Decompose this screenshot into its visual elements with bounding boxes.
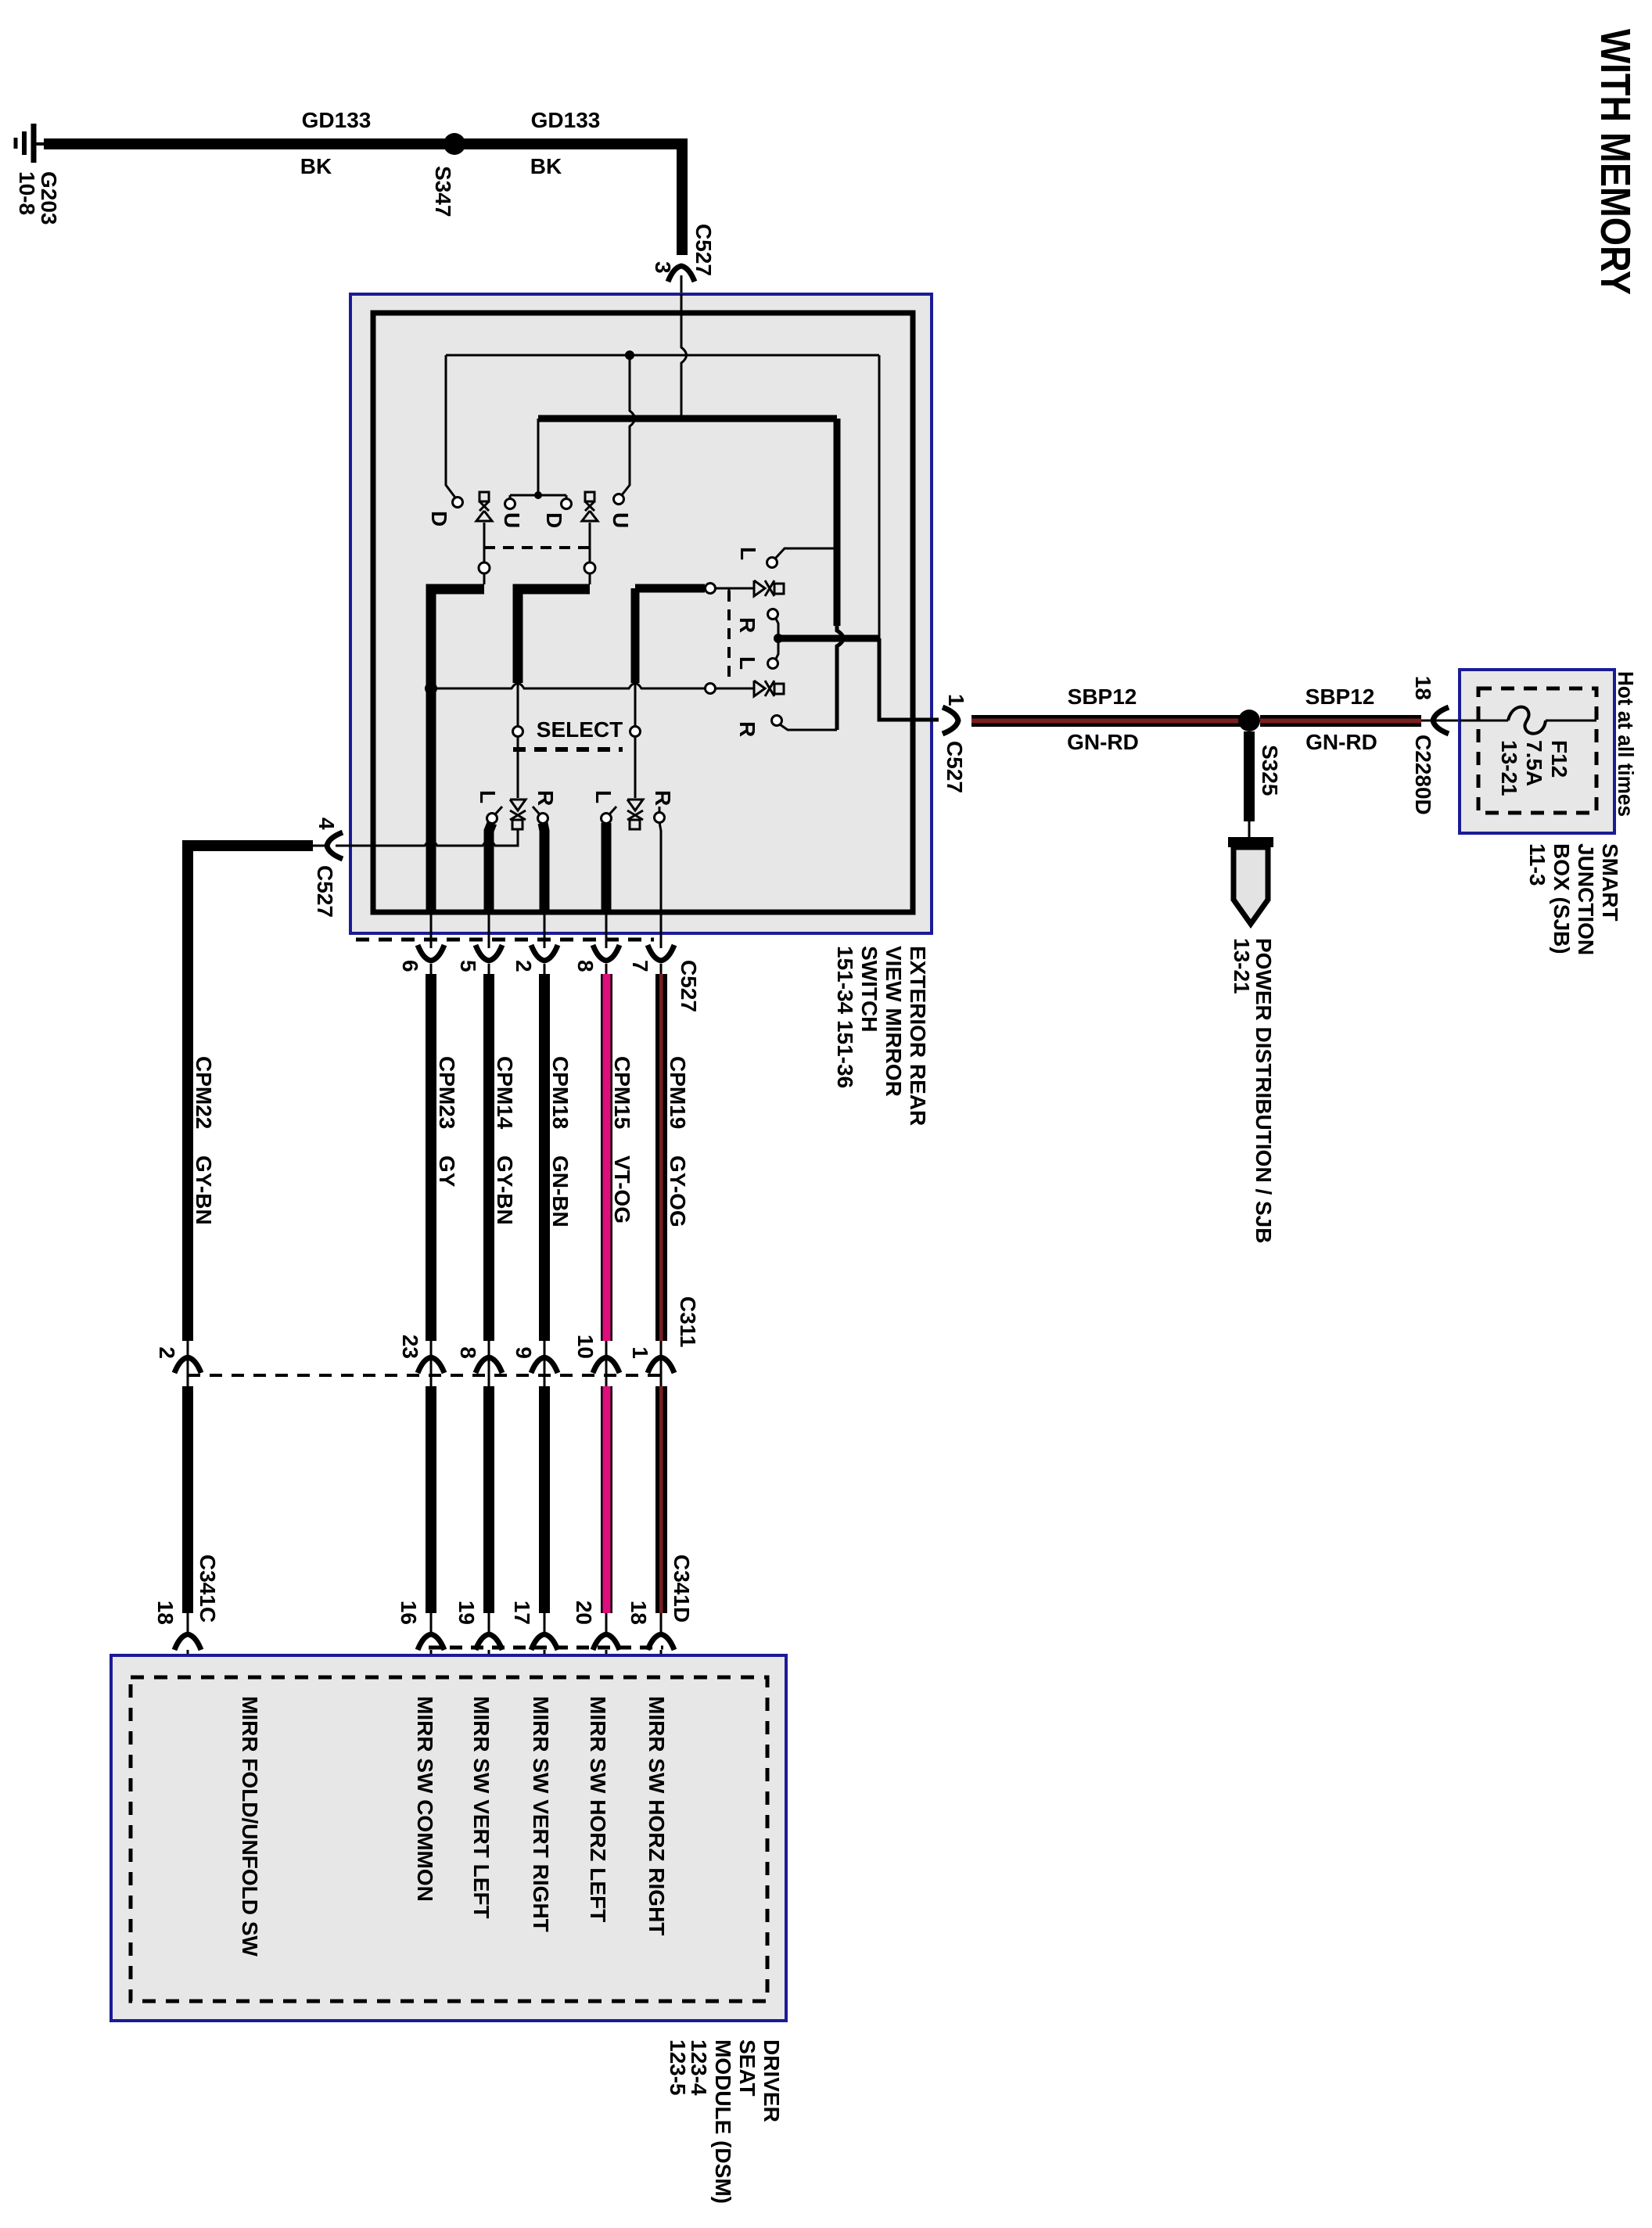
exterior rear view mirror switch box	[350, 294, 932, 933]
svg-text:L: L	[736, 547, 760, 560]
svg-text:C341D: C341D	[670, 1554, 694, 1622]
svg-text:F12: F12	[1547, 740, 1571, 778]
svg-text:GY-OG: GY-OG	[666, 1155, 690, 1227]
wire to switch B common (hops pole wires)	[431, 684, 705, 689]
svg-text:CPM23: CPM23	[435, 1056, 459, 1129]
svg-text:MIRR SW COMMON: MIRR SW COMMON	[413, 1696, 437, 1902]
contact U mirror-right-up	[614, 494, 624, 505]
svg-text:U: U	[609, 512, 633, 528]
wire pin3 inside switch (hops over internal line)	[681, 294, 687, 419]
splice S325	[1238, 710, 1260, 731]
tie node R/L2	[774, 634, 783, 643]
svg-text:GN-RD: GN-RD	[1305, 730, 1377, 754]
wire tie node to V2	[778, 635, 879, 642]
svg-text:BOX (SJB): BOX (SJB)	[1550, 843, 1574, 954]
wire CPM23	[426, 974, 436, 1341]
svg-text:6: 6	[398, 960, 422, 972]
wire SBP12 GN-RD right segment	[1260, 715, 1421, 727]
svg-text:18: 18	[627, 1601, 651, 1625]
bus left drop to contact link	[537, 419, 540, 495]
svg-text:11-3: 11-3	[1525, 843, 1550, 886]
svg-text:C2280D: C2280D	[1411, 735, 1435, 815]
DSM inner dashed outline	[131, 1677, 767, 2001]
svg-text:VIEW MIRROR: VIEW MIRROR	[882, 946, 906, 1097]
connector C527 pin 1 exit	[943, 707, 958, 734]
wire CPM15 violet-orange	[601, 974, 612, 1341]
svg-text:L: L	[735, 656, 760, 670]
internal top wire	[446, 354, 879, 357]
connector C2280D pin 18	[1433, 707, 1449, 734]
svg-text:20: 20	[572, 1601, 596, 1625]
svg-text:D: D	[427, 511, 451, 526]
svg-text:R: R	[735, 617, 760, 633]
svg-text:WITH MEMORY: WITH MEMORY	[1592, 29, 1639, 295]
bus wire from pin3	[538, 415, 837, 422]
wire CPM22 lower segment	[182, 1386, 193, 1613]
select pole 1 contact	[513, 727, 523, 737]
select pole 2 contact	[630, 727, 641, 737]
contact R horizontal-right	[768, 609, 778, 620]
wire L2 up to tie node	[776, 638, 778, 659]
svg-text:L: L	[591, 790, 616, 803]
ground G203	[16, 124, 45, 163]
dashed line connector C527 bottom	[356, 938, 654, 942]
svg-text:16: 16	[397, 1601, 421, 1625]
wire CPM19 grey-orange	[655, 974, 667, 1341]
wire select R to pin2 column	[543, 823, 544, 910]
svg-text:GN-RD: GN-RD	[1067, 730, 1139, 754]
svg-text:SBP12: SBP12	[1305, 685, 1375, 709]
svg-text:DRIVER: DRIVER	[760, 2039, 784, 2122]
svg-text:18: 18	[1411, 676, 1435, 700]
svg-text:VT-OG: VT-OG	[610, 1155, 634, 1224]
wire V2 top line down	[878, 355, 881, 638]
svg-text:19: 19	[454, 1601, 479, 1625]
wire select L to pin5 column	[489, 823, 492, 910]
wire select L2 to pin8 column	[602, 823, 612, 910]
select contact R horz-right	[655, 813, 665, 823]
svg-text:Hot at all times: Hot at all times	[1614, 671, 1638, 817]
arm L to V1	[775, 548, 836, 559]
svg-text:R: R	[735, 721, 760, 737]
svg-text:23: 23	[398, 1335, 422, 1359]
svg-text:C311: C311	[676, 1296, 700, 1347]
dashed line connector C311	[188, 1374, 662, 1377]
select pole 2 actuator	[634, 736, 637, 798]
switch A pole contact	[706, 584, 716, 594]
wire CPM18 lower	[539, 1386, 550, 1613]
wire V1 from bus (hops tie wire)	[834, 419, 841, 626]
select contact R vert-right	[538, 814, 548, 824]
actuator switch B horizontal	[716, 681, 784, 696]
svg-text:R: R	[533, 790, 558, 806]
svg-text:3: 3	[651, 261, 675, 274]
wire CPM15 lower	[601, 1386, 612, 1613]
driver seat module DSM box	[111, 1655, 786, 2021]
select pole 2 wire from switch A common	[631, 588, 640, 683]
svg-text:R: R	[651, 790, 675, 806]
switch inner border	[373, 313, 913, 912]
wire GD133 BK ground feed	[44, 144, 682, 255]
svg-text:123-5: 123-5	[666, 2039, 690, 2096]
fuse F12 element	[1508, 707, 1546, 734]
connector C527 pin 4 exit left	[327, 832, 343, 859]
contact link wire U1-D2	[510, 494, 566, 497]
wire switch1 common to column 6	[483, 573, 486, 584]
svg-text:C527: C527	[313, 865, 337, 918]
svg-text:SBP12: SBP12	[1068, 685, 1137, 709]
svg-text:10: 10	[573, 1335, 598, 1359]
wire CPM18	[539, 974, 550, 1341]
wire to power distribution	[1248, 821, 1251, 839]
svg-text:9: 9	[512, 1346, 536, 1359]
svg-text:13-21: 13-21	[1230, 938, 1254, 994]
column pin5 CPM14 GY-BN	[454, 910, 517, 1677]
svg-text:BK: BK	[300, 154, 332, 178]
svg-text:C527: C527	[677, 960, 701, 1012]
select pole 1 wire and actuator	[517, 736, 519, 798]
svg-text:EXTERIOR REAR: EXTERIOR REAR	[906, 946, 930, 1126]
svg-text:C527: C527	[943, 741, 967, 793]
svg-text:5: 5	[456, 960, 480, 972]
wire switch2 common to select pole 1	[589, 573, 591, 584]
svg-text:S347: S347	[431, 166, 455, 217]
mechanical link dashed horizontal switches	[727, 591, 731, 685]
select contact L vert-left	[487, 814, 497, 824]
svg-text:GD133: GD133	[302, 108, 372, 132]
node switch B feed	[425, 682, 437, 695]
contact R2 horizontal-right	[772, 716, 782, 726]
svg-text:CPM14: CPM14	[493, 1056, 517, 1130]
contact L horizontal-left	[767, 558, 778, 568]
node on top wire	[625, 350, 634, 360]
svg-text:MIRR FOLD/UNFOLD SW: MIRR FOLD/UNFOLD SW	[238, 1696, 262, 1957]
svg-text:S325: S325	[1258, 745, 1282, 796]
wire C2280D to SJB	[1421, 720, 1460, 722]
arm R2 to V1 bottom	[780, 724, 837, 730]
svg-text:MIRR SW VERT RIGHT: MIRR SW VERT RIGHT	[529, 1696, 553, 1932]
actuator switch1 vertical	[476, 492, 492, 562]
svg-text:8: 8	[573, 960, 598, 972]
svg-text:GY-BN: GY-BN	[192, 1155, 216, 1225]
common contact switch1	[479, 562, 490, 573]
right switch A common wire	[635, 584, 705, 593]
contact U mirror-left-up	[505, 499, 515, 509]
svg-text:MODULE (DSM): MODULE (DSM)	[711, 2039, 735, 2204]
dashed line connector C341D	[429, 1646, 663, 1650]
svg-text:2: 2	[512, 960, 536, 972]
svg-text:GY-BN: GY-BN	[493, 1155, 517, 1225]
svg-text:GD133: GD133	[531, 108, 601, 132]
svg-text:C527: C527	[691, 224, 716, 276]
column pin8 CPM15 VT-OG	[572, 910, 634, 1677]
column pin7 CPM19 GY-OG	[627, 910, 694, 1677]
svg-text:D: D	[542, 512, 566, 528]
svg-text:10-8: 10-8	[15, 171, 39, 215]
svg-text:4: 4	[314, 818, 339, 830]
svg-text:18: 18	[153, 1601, 178, 1625]
wire pin4 internal to select pole 1 (hops columns)	[353, 829, 518, 846]
splice S347	[444, 133, 465, 155]
svg-text:1: 1	[628, 1346, 652, 1359]
wire node to U contact (hops bus)	[621, 355, 635, 496]
contact D mirror-left-down	[453, 498, 463, 508]
SJB inner dashed outline	[1478, 688, 1596, 813]
wire CPM14 lower	[483, 1386, 494, 1613]
column pin2 CPM18 GN-BN	[510, 910, 573, 1677]
svg-text:MIRR SW HORZ LEFT: MIRR SW HORZ LEFT	[586, 1696, 610, 1922]
mechanical link dashed switch1-switch2	[484, 546, 590, 549]
wire col1 through C527	[430, 910, 433, 974]
svg-text:POWER DISTRIBUTION / SJB: POWER DISTRIBUTION / SJB	[1252, 938, 1276, 1243]
svg-text:1: 1	[944, 694, 968, 706]
node bus drop	[534, 491, 542, 499]
wire CPM22 thick horizontal	[188, 846, 313, 1341]
svg-text:GY: GY	[435, 1155, 459, 1188]
smart junction box SJB	[1460, 670, 1614, 833]
wire top line to D contact	[446, 355, 455, 498]
select dashed outline	[513, 747, 623, 752]
svg-text:C341C: C341C	[196, 1554, 220, 1622]
wire select R2 to pin7 column	[659, 822, 661, 948]
column pin6 CPM23 GY	[397, 910, 701, 1677]
svg-text:SMART: SMART	[1598, 843, 1622, 922]
wire CPM23 lower	[426, 1386, 436, 1613]
svg-text:JUNCTION: JUNCTION	[1574, 843, 1598, 955]
svg-text:2: 2	[155, 1346, 179, 1359]
contact D mirror-right-down	[562, 499, 572, 509]
actuator switch2 vertical	[582, 492, 598, 562]
svg-text:CPM15: CPM15	[610, 1056, 634, 1129]
common contact switch2	[584, 562, 595, 573]
contact L2 horizontal-left	[768, 659, 778, 669]
svg-text:U: U	[500, 512, 524, 528]
wire CPM19 lower	[655, 1386, 667, 1613]
actuator switch A horizontal	[716, 580, 784, 596]
svg-text:13-21: 13-21	[1497, 740, 1521, 796]
svg-text:151-34 151-36: 151-34 151-36	[833, 946, 857, 1088]
select contact L horz-left	[602, 814, 612, 824]
svg-text:MIRR SW VERT LEFT: MIRR SW VERT LEFT	[469, 1696, 494, 1919]
svg-text:G203: G203	[37, 171, 61, 225]
svg-text:L: L	[476, 790, 500, 803]
svg-text:7.5A: 7.5A	[1522, 740, 1546, 786]
svg-text:CPM18: CPM18	[548, 1056, 573, 1129]
svg-text:17: 17	[510, 1601, 534, 1625]
connector C527 pin 3	[668, 266, 695, 282]
svg-text:SELECT: SELECT	[537, 717, 623, 742]
svg-text:MIRR SW HORZ RIGHT: MIRR SW HORZ RIGHT	[645, 1696, 669, 1935]
svg-text:GN-BN: GN-BN	[548, 1155, 573, 1227]
svg-text:CPM22: CPM22	[192, 1056, 216, 1129]
wire CPM14	[483, 974, 494, 1341]
wire R down to tie node	[776, 619, 778, 638]
svg-text:8: 8	[456, 1346, 480, 1359]
switch B common contact	[706, 684, 716, 694]
wire pin3 into switch (hops over internal line)	[681, 275, 683, 296]
fuse F12 wire	[1460, 720, 1508, 722]
svg-text:SWITCH: SWITCH	[857, 946, 882, 1032]
wire V2 to pin1 exit	[879, 638, 939, 720]
svg-text:CPM19: CPM19	[666, 1056, 690, 1129]
svg-text:BK: BK	[530, 154, 562, 178]
svg-text:SEAT: SEAT	[735, 2039, 760, 2097]
wire SBP12 GN-RD left segment	[971, 715, 1249, 727]
power distribution off-page symbol	[1234, 847, 1268, 924]
svg-text:7: 7	[628, 960, 652, 972]
